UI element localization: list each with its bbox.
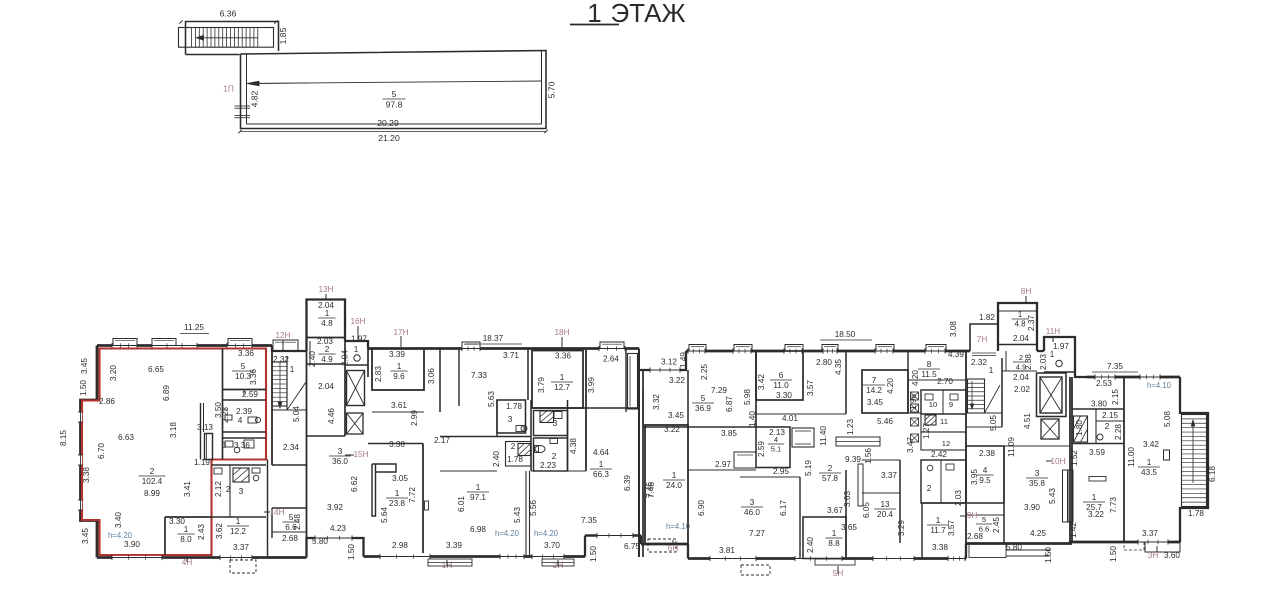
wall below 9.6 xyxy=(372,411,424,413)
svg-text:13Н: 13Н xyxy=(318,285,333,294)
svg-text:2: 2 xyxy=(927,484,932,493)
wall x1070 xyxy=(1069,377,1071,544)
svg-text:10: 10 xyxy=(929,400,937,409)
svg-text:3.45: 3.45 xyxy=(81,528,90,544)
svg-text:5.46: 5.46 xyxy=(877,417,893,426)
porch 9H slab xyxy=(969,544,1006,558)
window xyxy=(112,344,137,347)
svg-text:11.25: 11.25 xyxy=(184,323,204,332)
svg-text:ЭТАЖ: ЭТАЖ xyxy=(610,0,685,28)
svg-text:11.7: 11.7 xyxy=(930,526,946,535)
svg-text:4.51: 4.51 xyxy=(1023,413,1032,429)
svg-text:2.70: 2.70 xyxy=(937,377,953,386)
porch 6H dashed xyxy=(648,539,676,552)
leader 18H xyxy=(561,337,563,348)
svg-text:3.65: 3.65 xyxy=(841,523,857,532)
svg-text:2.97: 2.97 xyxy=(715,460,731,469)
svg-text:h=4.10: h=4.10 xyxy=(666,522,691,531)
svg-text:36.9: 36.9 xyxy=(695,404,711,413)
svg-text:5.80: 5.80 xyxy=(1006,543,1022,552)
outer wall left side xyxy=(81,346,98,558)
annex inner corridor line xyxy=(247,81,542,84)
vestibule 14H walls xyxy=(272,507,307,509)
svg-text:4.46: 4.46 xyxy=(327,408,336,424)
svg-text:1.80: 1.80 xyxy=(1075,420,1084,436)
outer wall bottom left xyxy=(97,556,307,559)
svg-text:4.38: 4.38 xyxy=(569,438,578,454)
bath cluster 1H outline xyxy=(497,400,526,433)
fixture storage 46.0 xyxy=(734,452,756,468)
svg-text:2.39: 2.39 xyxy=(236,407,252,416)
room 5.1 outline xyxy=(756,427,790,468)
fixtures bath xyxy=(554,412,562,419)
svg-text:1.56: 1.56 xyxy=(864,448,873,464)
svg-text:1: 1 xyxy=(560,373,565,382)
wall x800 lower xyxy=(799,477,801,559)
svg-text:5: 5 xyxy=(241,362,246,371)
elevator shaft xyxy=(1040,377,1062,413)
small rooms 2.15/2 walls xyxy=(1072,443,1124,445)
svg-text:9.5: 9.5 xyxy=(979,476,991,485)
svg-text:3.90: 3.90 xyxy=(124,540,140,549)
svg-text:2.68: 2.68 xyxy=(967,532,983,541)
svg-text:2.68: 2.68 xyxy=(282,534,298,543)
vestibule 8H rooms xyxy=(1002,370,1037,372)
window xyxy=(79,500,82,510)
svg-text:5.1: 5.1 xyxy=(771,444,782,453)
svg-text:6.65: 6.65 xyxy=(148,365,164,374)
bath cluster 2 xyxy=(506,442,532,467)
leader 11H xyxy=(1052,336,1054,342)
svg-text:5: 5 xyxy=(701,394,706,403)
svg-text:3.40: 3.40 xyxy=(114,512,123,528)
outer wall step x688 xyxy=(687,544,689,559)
outer wall bottom 1H-2H zone xyxy=(364,555,586,558)
svg-text:5.05: 5.05 xyxy=(989,415,998,431)
outer wall step to right section xyxy=(1075,351,1087,377)
svg-text:3.92: 3.92 xyxy=(327,503,343,512)
outer wall bottom 24.0 section xyxy=(641,543,688,546)
svg-text:7.73: 7.73 xyxy=(1109,497,1118,513)
leader 12H xyxy=(282,340,284,350)
stair arrow down xyxy=(279,362,281,408)
svg-text:h=4.10: h=4.10 xyxy=(1147,381,1172,390)
svg-text:3: 3 xyxy=(222,441,227,450)
window bay xyxy=(926,345,946,352)
svg-text:3.45: 3.45 xyxy=(668,411,684,420)
svg-text:1: 1 xyxy=(1092,493,1097,502)
svg-text:4: 4 xyxy=(774,435,778,444)
svg-text:2: 2 xyxy=(511,442,516,451)
svg-text:3.57: 3.57 xyxy=(806,380,815,396)
wall y517 below baths xyxy=(212,516,267,518)
svg-text:4.20: 4.20 xyxy=(911,370,920,386)
svg-text:4.82: 4.82 xyxy=(250,90,260,107)
svg-text:20.4: 20.4 xyxy=(877,510,893,519)
tower 13H inner walls xyxy=(307,337,346,339)
vestibule 16H outline xyxy=(345,341,368,349)
svg-text:2.42: 2.42 xyxy=(931,450,947,459)
window xyxy=(823,349,837,352)
svg-text:3.12: 3.12 xyxy=(661,358,677,367)
svg-text:11.00: 11.00 xyxy=(1127,447,1136,467)
window xyxy=(112,556,162,559)
svg-text:24.0: 24.0 xyxy=(666,481,682,490)
svg-text:2: 2 xyxy=(1019,353,1023,362)
wall x803-846 rooms xyxy=(845,351,847,414)
svg-text:66.3: 66.3 xyxy=(593,470,609,479)
leader 13H xyxy=(325,294,327,299)
elevator shaft xyxy=(347,371,365,406)
16H circle xyxy=(354,355,360,361)
svg-text:2.40: 2.40 xyxy=(308,351,317,367)
wall x423 divider xyxy=(422,444,424,554)
section divider wall x641 xyxy=(638,349,640,558)
wall 46.0/57.8 divider xyxy=(688,469,756,471)
svg-text:3.71: 3.71 xyxy=(503,351,519,360)
svg-text:3.37: 3.37 xyxy=(233,543,249,552)
svg-text:1.78: 1.78 xyxy=(507,455,523,464)
svg-text:7.29: 7.29 xyxy=(711,386,727,395)
outer wall bottom mid xyxy=(688,557,966,560)
door arc room 10.3 xyxy=(243,390,245,396)
svg-text:h=4.20: h=4.20 xyxy=(534,529,559,538)
svg-text:1П: 1П xyxy=(223,84,234,94)
elevator shaft xyxy=(347,413,364,434)
svg-text:2.80: 2.80 xyxy=(816,358,832,367)
wall below red step y465 xyxy=(212,464,267,466)
svg-text:2.45: 2.45 xyxy=(992,517,1001,533)
svg-text:2.15: 2.15 xyxy=(1111,389,1120,405)
svg-text:21.20: 21.20 xyxy=(378,133,400,143)
wall room 3 top xyxy=(223,437,267,439)
svg-text:12: 12 xyxy=(942,439,950,448)
svg-text:3.57: 3.57 xyxy=(947,520,956,536)
svg-text:2.37: 2.37 xyxy=(1027,315,1036,331)
stair diagonal flight xyxy=(287,382,306,410)
wc fixture bath xyxy=(252,468,260,473)
svg-text:1: 1 xyxy=(1147,458,1152,467)
svg-text:3.70: 3.70 xyxy=(544,541,560,550)
room 11.7 outline xyxy=(922,502,966,504)
window xyxy=(227,344,252,347)
wall stub 3.18 xyxy=(200,403,202,460)
svg-text:46.0: 46.0 xyxy=(744,508,760,517)
svg-text:1: 1 xyxy=(936,516,941,525)
leader 10H xyxy=(1046,460,1052,462)
tower 13H outline xyxy=(307,300,346,352)
wall 15H zone left xyxy=(307,435,346,437)
wall x586 divider xyxy=(585,349,587,472)
svg-text:5.08: 5.08 xyxy=(1163,411,1172,427)
stair treads 12H xyxy=(272,362,287,406)
wc fixtures small rooms xyxy=(925,394,933,400)
svg-text:2: 2 xyxy=(1105,422,1110,431)
svg-text:4.8: 4.8 xyxy=(321,319,333,328)
svg-text:1: 1 xyxy=(354,345,359,354)
svg-text:2.04: 2.04 xyxy=(1013,373,1029,382)
svg-text:3.36: 3.36 xyxy=(555,352,571,361)
svg-text:2.64: 2.64 xyxy=(603,355,619,364)
room 2.53 walls xyxy=(1072,408,1124,410)
elevator block 8H outer xyxy=(1037,373,1067,417)
svg-text:8.15: 8.15 xyxy=(59,430,68,446)
duct below xyxy=(908,412,921,414)
svg-text:5.98: 5.98 xyxy=(743,389,752,405)
svg-text:5.56: 5.56 xyxy=(529,500,538,516)
svg-text:11.5: 11.5 xyxy=(921,370,937,379)
svg-text:3.22: 3.22 xyxy=(664,425,680,434)
svg-text:23.8: 23.8 xyxy=(389,499,405,508)
svg-text:3: 3 xyxy=(239,487,244,496)
porch 3H xyxy=(1145,542,1180,552)
wall x908 vertical xyxy=(907,351,909,413)
title underline xyxy=(570,24,619,26)
svg-text:7: 7 xyxy=(872,376,877,385)
svg-text:4.25: 4.25 xyxy=(1030,529,1046,538)
hatched shaft xyxy=(1074,416,1088,442)
porch 4H dashed xyxy=(230,560,256,573)
window xyxy=(500,555,524,558)
wall x1004 vertical 9H xyxy=(1003,446,1005,544)
window xyxy=(79,455,82,465)
svg-text:4.20: 4.20 xyxy=(886,378,895,394)
svg-text:97.1: 97.1 xyxy=(470,493,486,502)
outer wall 12H stair top xyxy=(272,346,307,352)
room 12.7 outline xyxy=(532,351,583,409)
svg-text:3.36: 3.36 xyxy=(249,369,258,385)
svg-text:2.03: 2.03 xyxy=(1039,354,1048,370)
svg-text:9Н: 9Н xyxy=(967,511,978,520)
svg-text:16Н: 16Н xyxy=(350,317,365,326)
svg-text:3.18: 3.18 xyxy=(169,422,178,438)
svg-text:3.32: 3.32 xyxy=(652,394,661,410)
radiator bars mid xyxy=(858,464,863,506)
window xyxy=(733,349,751,352)
svg-text:2.48: 2.48 xyxy=(293,514,302,530)
wall x528 corridor xyxy=(527,349,529,401)
bottom wall 15H recess inner xyxy=(363,538,365,557)
hatched shaft xyxy=(540,411,554,423)
svg-text:1: 1 xyxy=(672,471,677,480)
svg-text:3.90: 3.90 xyxy=(1024,503,1040,512)
leader 2H xyxy=(557,560,559,566)
svg-text:2.32: 2.32 xyxy=(273,355,289,364)
interior door opening ticks xyxy=(223,409,229,411)
rooms 11.5 top walls xyxy=(908,379,966,381)
svg-text:1: 1 xyxy=(184,525,189,534)
window xyxy=(315,536,352,539)
svg-text:2.03: 2.03 xyxy=(954,490,963,506)
outer wall top mid-left xyxy=(368,347,639,350)
svg-text:11Н: 11Н xyxy=(1046,327,1060,336)
vestibule 16H walls xyxy=(345,364,368,366)
room 10/9 walls xyxy=(921,390,966,414)
svg-text:1.97: 1.97 xyxy=(351,335,367,344)
annex stair treads xyxy=(191,28,193,48)
svg-text:7Н: 7Н xyxy=(977,335,988,344)
svg-text:2.53: 2.53 xyxy=(1096,379,1112,388)
wall x1072 left of right section xyxy=(1071,377,1073,542)
sink fixture bath xyxy=(214,468,222,474)
wall x626 room 2.64 xyxy=(625,349,627,413)
svg-text:1: 1 xyxy=(397,362,402,371)
svg-text:3: 3 xyxy=(750,498,755,507)
column shaft xyxy=(205,434,213,460)
stair arrow up xyxy=(1192,420,1194,483)
svg-text:7.27: 7.27 xyxy=(749,529,765,538)
svg-text:3.13: 3.13 xyxy=(197,423,213,432)
red outline apartment 102.4 xyxy=(82,349,266,556)
window xyxy=(688,349,705,352)
svg-text:3Н: 3Н xyxy=(1148,551,1159,560)
svg-text:3.36: 3.36 xyxy=(238,349,254,358)
room 11 walls xyxy=(921,414,966,432)
room 8.8 outline xyxy=(803,517,846,559)
svg-text:3.37: 3.37 xyxy=(881,471,897,480)
svg-text:1: 1 xyxy=(236,517,241,526)
svg-text:6.05: 6.05 xyxy=(862,502,871,518)
tower 8H outline xyxy=(998,303,1037,351)
svg-text:11: 11 xyxy=(940,417,948,426)
window xyxy=(79,412,82,422)
svg-text:2.25: 2.25 xyxy=(700,364,709,380)
svg-text:18.37: 18.37 xyxy=(483,334,504,343)
outer wall step x585 xyxy=(584,536,586,557)
svg-text:7.72: 7.72 xyxy=(408,487,417,503)
window xyxy=(925,349,945,352)
wall room 10.3 bottom xyxy=(223,389,267,391)
svg-text:2.99: 2.99 xyxy=(410,410,419,426)
room 36.9 walls xyxy=(687,370,689,427)
svg-text:3.20: 3.20 xyxy=(109,365,118,381)
svg-text:3.38: 3.38 xyxy=(82,467,91,483)
porch 2H steps xyxy=(542,559,574,566)
annex stair enclosure xyxy=(186,22,279,55)
svg-text:3: 3 xyxy=(508,415,513,424)
leader 4H xyxy=(186,558,188,562)
window xyxy=(599,347,625,350)
leader 3H xyxy=(1156,546,1158,552)
svg-text:3.45: 3.45 xyxy=(867,398,883,407)
svg-text:14Н: 14Н xyxy=(269,508,284,517)
outer wall step down x1069 xyxy=(1068,542,1070,544)
annex hall outline xyxy=(241,51,547,129)
window bay xyxy=(152,339,176,346)
svg-text:43.5: 43.5 xyxy=(1141,468,1157,477)
room 14.2 outline xyxy=(862,370,908,413)
window bay xyxy=(785,345,803,352)
svg-text:3.42: 3.42 xyxy=(1143,440,1159,449)
stair 7H diagonal xyxy=(985,385,1001,413)
svg-text:2.23: 2.23 xyxy=(540,461,556,470)
svg-text:4.23: 4.23 xyxy=(330,524,346,533)
leader 1H xyxy=(446,560,448,566)
svg-text:12.2: 12.2 xyxy=(230,527,246,536)
svg-text:1: 1 xyxy=(1018,310,1022,319)
room 35.8 top wall xyxy=(1004,445,1070,447)
vent shaft right of 2.64 xyxy=(628,354,638,410)
annex hall inner lines xyxy=(246,54,248,124)
svg-text:2.28: 2.28 xyxy=(1114,424,1123,440)
svg-text:6.01: 6.01 xyxy=(457,496,466,512)
open area 36.0 wall xyxy=(368,443,423,445)
svg-text:2.43: 2.43 xyxy=(197,524,206,540)
svg-text:2.23: 2.23 xyxy=(221,407,230,423)
svg-text:5.04: 5.04 xyxy=(292,406,301,422)
svg-text:57.8: 57.8 xyxy=(822,474,838,483)
svg-text:4: 4 xyxy=(238,416,243,425)
window xyxy=(152,344,197,347)
lobby 11H inner xyxy=(1044,371,1075,373)
svg-text:11.40: 11.40 xyxy=(819,426,828,446)
svg-text:3.39: 3.39 xyxy=(446,541,462,550)
svg-text:2.04: 2.04 xyxy=(318,382,334,391)
svg-text:35.8: 35.8 xyxy=(1029,479,1045,488)
window xyxy=(795,557,842,560)
svg-text:11.0: 11.0 xyxy=(773,381,789,390)
annex stair flight box xyxy=(179,28,274,48)
svg-text:1: 1 xyxy=(989,366,994,375)
window bay xyxy=(734,345,752,352)
wall room 4 top xyxy=(223,399,267,401)
svg-text:17Н: 17Н xyxy=(393,328,408,337)
svg-text:12Н: 12Н xyxy=(275,331,290,340)
porch 7H outline xyxy=(970,324,998,351)
stair arrow xyxy=(971,381,973,409)
svg-text:2.15: 2.15 xyxy=(1102,411,1118,420)
svg-text:1.98: 1.98 xyxy=(909,394,918,410)
outer wall top mid-right xyxy=(686,350,970,353)
porch 10H slab xyxy=(1006,549,1050,551)
svg-text:3.22: 3.22 xyxy=(1088,510,1104,519)
svg-text:2.32: 2.32 xyxy=(971,358,987,367)
svg-text:2.12: 2.12 xyxy=(214,481,223,497)
svg-text:4: 4 xyxy=(983,466,988,475)
svg-text:18Н: 18Н xyxy=(554,328,569,337)
svg-text:1.52: 1.52 xyxy=(1070,450,1079,466)
svg-text:3.30: 3.30 xyxy=(776,391,792,400)
outer wall right side with stair protrusion xyxy=(1180,377,1208,542)
svg-text:2: 2 xyxy=(226,485,231,494)
svg-text:4.35: 4.35 xyxy=(834,359,843,375)
svg-text:14.2: 14.2 xyxy=(866,386,882,395)
svg-text:5.43: 5.43 xyxy=(1048,488,1057,504)
svg-text:3.63: 3.63 xyxy=(843,491,852,507)
svg-text:7.46: 7.46 xyxy=(647,482,656,498)
outer wall recessed 3.12 section xyxy=(639,351,686,370)
window bay xyxy=(689,345,706,352)
annex stair arrow xyxy=(197,37,259,39)
window xyxy=(948,557,965,560)
svg-text:6.62: 6.62 xyxy=(350,476,359,492)
outer wall bottom 10H zone xyxy=(966,542,1072,545)
window xyxy=(710,557,756,560)
leader 16H xyxy=(357,326,359,340)
svg-text:2.95: 2.95 xyxy=(773,467,789,476)
svg-text:1: 1 xyxy=(599,460,604,469)
dashed porch right xyxy=(1124,542,1144,550)
svg-text:3.29: 3.29 xyxy=(897,520,906,536)
svg-text:1.82: 1.82 xyxy=(979,313,995,322)
svg-text:1.40: 1.40 xyxy=(748,411,757,427)
wall x1124 divider xyxy=(1123,377,1125,542)
svg-text:1.50: 1.50 xyxy=(1109,546,1118,562)
svg-text:3.60: 3.60 xyxy=(1164,551,1180,560)
svg-text:2.40: 2.40 xyxy=(492,451,501,467)
wall 66.3 top xyxy=(586,407,639,409)
svg-text:1.19: 1.19 xyxy=(194,458,210,467)
